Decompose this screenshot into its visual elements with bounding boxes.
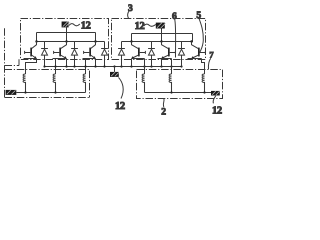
junction dots on midpoint bus [43,65,45,67]
wire: pair5 drop to bus [161,59,163,67]
wire: pair4 drop to bus [131,59,133,67]
leader for label 5 [199,18,203,53]
wire: pair1 emitter rail [24,58,37,60]
svg-text:12: 12 [135,21,145,32]
leader for label 2 [162,99,165,107]
diode D3 [101,42,108,67]
wire: riser to coil L2 [55,59,57,75]
inductor coil L3 [83,74,85,93]
leader from bottom-right sensor to label [213,96,216,104]
leader for label 7 [208,58,210,69]
transistor Q5 [162,42,170,50]
wire: riser to coil L3 [85,59,87,75]
wire: right feed bus [132,34,193,43]
wire: pair6 step to coil L6 [202,59,205,75]
svg-text:12: 12 [212,106,222,117]
sensor box 12 (top-right, hatched) [156,23,165,29]
svg-text:5: 5 [196,11,201,21]
diode D6 [178,42,185,67]
inductor coil L1 [23,74,25,93]
wire: left feed bus [37,33,96,42]
leader for label 6 [174,19,177,57]
wire: bottom-right star bus [145,92,212,94]
sensor box 12 (bottom-left, hatched) [6,90,17,95]
lower-left winding enclosure box with left-edge extension [5,28,90,97]
wire: pair4 emitter rail [132,58,145,60]
svg-text:2: 2 [161,108,166,118]
wire: pair6 emitter rail [188,58,202,60]
leader squiggle (top-left 12) [69,24,80,26]
wire: pair2 drop to bus [66,59,68,67]
wire: riser to coil L4 [144,59,146,75]
wire: pair1 step to coil L1 [26,59,37,75]
junction dots bottom-right bus [170,91,172,93]
transistor Q3 [90,42,96,50]
inductor coil L5 [169,74,171,93]
wire: center tap stub [114,67,116,72]
sensor box 12 (top-left, hatched) [62,22,69,28]
wire: riser to coil L5 [171,59,173,75]
inductor coil L4 [142,74,144,93]
node dots on right collector bus [130,40,132,42]
leader squiggle (top-right 12) [144,24,156,26]
inductor coil L6 [202,74,204,93]
diode D5 [148,42,155,67]
wire: stub box12 to right collector bus [161,29,163,42]
lower-right winding enclosure box (dash-dot border) [137,70,223,99]
inductor coil L2 [53,74,55,93]
diode D1 [41,42,48,67]
diode D4 [118,42,125,67]
wire: stub box12 to left collector bus [66,27,68,41]
leader from center sensor to label [119,77,124,98]
wire: pair2 emitter rail [53,58,67,60]
sensor box 12 (center, hatched) [110,72,119,77]
transistor Q4 [132,42,140,50]
wire: pair3 drop to bus [95,59,97,67]
node dots on left collector bus [35,40,37,42]
wire: pair3 emitter rail [83,58,96,60]
svg-text:12: 12 [115,101,125,112]
wire: left collector bus [37,41,105,43]
inverter enclosure box (right bridge, dash-dot border) [112,19,206,60]
diode D2 [71,42,78,67]
transistor Q2 [60,42,67,50]
wire: midpoint bus [45,66,182,68]
svg-text:7: 7 [209,50,214,60]
sensor box 12 (bottom-right, hatched) [211,91,220,96]
transistor Q1 [31,42,37,50]
wire: right collector bus [122,41,193,43]
wire: pair5 emitter rail [158,58,172,60]
svg-text:12: 12 [81,21,91,32]
junction dots bottom-left bus [24,91,26,93]
leader for label 3 [128,11,129,18]
converter enclosure box (left bridge, dash-dot border) [21,19,109,60]
wire: bottom-left star bus [16,92,85,94]
short dash-dot jog near lower-left box top edge [5,59,20,65]
transistor Q6 [192,42,200,50]
